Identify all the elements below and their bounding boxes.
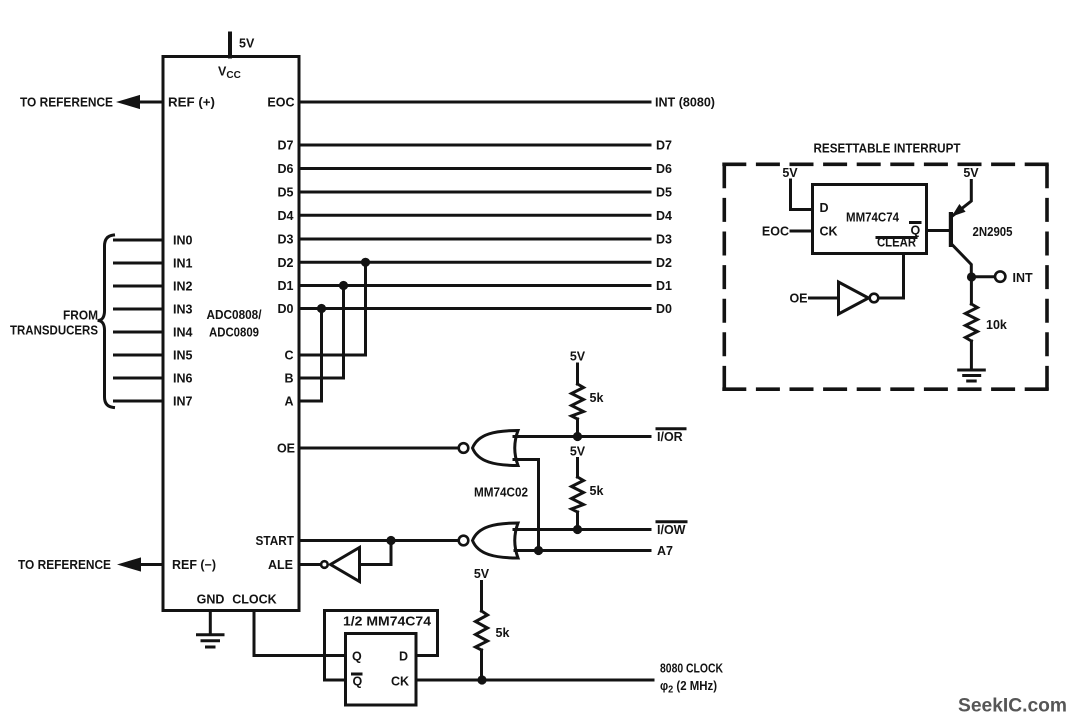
svg-text:IN1: IN1 — [173, 257, 193, 271]
label 8080 CLOCK phi2 — [660, 662, 723, 696]
svg-text:REF (−): REF (−) — [172, 558, 216, 572]
5V supply stub VCC — [230, 34, 255, 57]
svg-text:D0: D0 — [278, 302, 294, 316]
svg-text:D1: D1 — [656, 279, 672, 293]
wire FF2 Qbar to Q1 base — [927, 229, 950, 232]
INT terminal circle — [995, 271, 1005, 281]
5V stub to FF2 D — [782, 166, 812, 210]
wire D7 — [299, 144, 650, 147]
svg-text:D4: D4 — [278, 209, 294, 223]
junction dot A7 — [534, 546, 543, 555]
svg-text:D4: D4 — [656, 209, 672, 223]
junction dot on D0 — [317, 304, 326, 313]
svg-text:2N2905: 2N2905 — [973, 225, 1013, 239]
svg-text:B: B — [284, 372, 293, 386]
wire R4 to ground — [970, 341, 973, 369]
inverter A2 output bubble — [870, 294, 879, 303]
svg-text:Q: Q — [352, 650, 362, 664]
wire D1 — [299, 284, 650, 287]
svg-text:START: START — [256, 534, 295, 548]
wire CLOCK to flip-flop FF1 — [254, 611, 346, 656]
svg-text:5V: 5V — [570, 445, 586, 459]
NOR gate G2 body — [473, 523, 519, 558]
pin label Qbar (FF2) — [911, 223, 921, 238]
transistor Q1 emitter with 5V stub — [951, 166, 979, 217]
svg-text:MM74C74: MM74C74 — [846, 211, 899, 225]
resistor R2 5k zigzag — [572, 477, 584, 512]
wire IN5 — [115, 354, 164, 357]
wire EOC to FF2 CK — [791, 230, 813, 233]
wire G2 lower input / A7 line — [515, 549, 650, 552]
label FROM TRANSDUCERS — [10, 309, 98, 338]
svg-text:ALE: ALE — [268, 558, 293, 572]
wire D5 — [299, 191, 650, 194]
wire IN2 — [115, 285, 164, 288]
svg-text:RESETTABLE INTERRUPT: RESETTABLE INTERRUPT — [814, 142, 961, 156]
wire C to D2 column — [299, 262, 366, 355]
svg-text:5V: 5V — [239, 37, 255, 51]
junction dot START — [386, 536, 395, 545]
svg-text:1/2 MM74C74: 1/2 MM74C74 — [343, 615, 431, 629]
wire EOC to INT (8080) — [299, 101, 650, 104]
svg-text:8080 CLOCK: 8080 CLOCK — [660, 662, 723, 676]
wire G1 lower input to A7 node — [514, 460, 539, 551]
inverter A1 output bubble — [321, 561, 328, 568]
pin label Qbar (FF1) — [353, 674, 363, 689]
wire inverter input from START node — [361, 541, 392, 565]
resistor R2 5k pull-up stub — [576, 459, 579, 478]
wire D4 — [299, 214, 650, 217]
svg-text:ADC0809: ADC0809 — [209, 326, 259, 340]
svg-text:MM74C02: MM74C02 — [474, 486, 528, 500]
svg-text:10k: 10k — [986, 318, 1007, 332]
svg-text:OE: OE — [789, 292, 807, 306]
svg-text:FROM: FROM — [63, 309, 98, 323]
NOR gate G1 body — [473, 431, 519, 466]
wire START to NOR gate G2 — [299, 539, 457, 542]
wire REF (-) to reference — [137, 563, 163, 566]
flip-flop FF2 MM74C74 box — [813, 185, 927, 254]
label I/OR — [657, 429, 685, 444]
svg-text:REF (+): REF (+) — [168, 96, 215, 110]
ground symbol (interrupt box) — [959, 370, 985, 381]
svg-text:D3: D3 — [656, 233, 672, 247]
svg-text:IN2: IN2 — [173, 280, 193, 294]
wire R1 to I/OR rail — [576, 419, 579, 437]
wire OE to inverter A2 — [810, 297, 839, 300]
brace for transducer inputs — [98, 235, 114, 408]
svg-text:SeekIC.com: SeekIC.com — [958, 695, 1067, 717]
svg-text:φ2 (2 MHz): φ2 (2 MHz) — [660, 679, 717, 696]
svg-text:CLOCK: CLOCK — [232, 593, 276, 607]
svg-text:GND: GND — [197, 593, 225, 607]
flip-flop FF1 feedback loop Qbar to D — [325, 611, 438, 681]
svg-text:OE: OE — [277, 442, 295, 456]
svg-text:D1: D1 — [278, 279, 294, 293]
svg-text:I/OR: I/OR — [657, 430, 683, 444]
wire A to D0 column — [299, 309, 322, 402]
NOR gate G2 (MM74C02) output bubble — [459, 536, 469, 546]
wire ALE pin to inverter bubble — [299, 563, 320, 566]
dashed box RESETTABLE INTERRUPT — [722, 164, 1049, 391]
svg-text:CK: CK — [391, 675, 409, 689]
inverter A1 triangle — [331, 548, 360, 582]
svg-text:5k: 5k — [496, 626, 510, 640]
svg-text:D5: D5 — [278, 186, 294, 200]
svg-text:A7: A7 — [657, 544, 673, 558]
wire IN4 — [115, 331, 164, 334]
ground symbol GND — [198, 635, 224, 647]
svg-text:C: C — [284, 349, 293, 363]
wire IN7 — [115, 400, 164, 403]
svg-text:5V: 5V — [963, 166, 979, 180]
svg-text:EOC: EOC — [762, 225, 789, 239]
wire G2 upper input rail to I/OW — [514, 528, 650, 531]
wire OE to NOR gate G1 — [299, 447, 457, 450]
svg-text:IN6: IN6 — [173, 372, 193, 386]
svg-text:D7: D7 — [656, 139, 672, 153]
wire D0 — [299, 307, 650, 310]
wire D2 — [299, 261, 650, 264]
svg-text:TO REFERENCE: TO REFERENCE — [18, 558, 111, 572]
NOR gate G1 (MM74C02) output bubble — [459, 443, 469, 453]
wire D6 — [299, 167, 650, 170]
junction dot I/OR — [573, 432, 582, 441]
wire inverter A2 to CLEAR — [880, 254, 904, 299]
part label ADC0808/ADC0809 — [207, 308, 262, 340]
svg-text:IN3: IN3 — [173, 303, 193, 317]
svg-text:D6: D6 — [656, 162, 672, 176]
wire IN3 — [115, 308, 164, 311]
wire B to D1 column — [299, 286, 344, 379]
transistor Q1 2N2905 base bar — [949, 212, 953, 247]
transistor Q1 collector — [953, 245, 972, 277]
svg-text:D2: D2 — [656, 256, 672, 270]
svg-text:D3: D3 — [278, 233, 294, 247]
wire to INT terminal — [972, 275, 996, 278]
svg-text:D6: D6 — [278, 162, 294, 176]
svg-text:A: A — [284, 395, 293, 409]
flip-flop FF1 1/2 MM74C74 box — [346, 634, 417, 706]
svg-text:IN5: IN5 — [173, 349, 193, 363]
resistor R4 10k zigzag — [965, 304, 977, 341]
svg-text:5k: 5k — [590, 391, 604, 405]
svg-text:5V: 5V — [782, 166, 798, 180]
resistor R4 10k stub — [970, 277, 973, 304]
svg-text:EOC: EOC — [267, 96, 294, 110]
junction dot clock — [477, 675, 486, 684]
wire R2 to I/OW rail — [576, 512, 579, 530]
wire CK to 8080 clock — [416, 679, 653, 682]
resistor R1 5k pull-up stub — [576, 364, 579, 384]
junction dot on D1 — [339, 281, 348, 290]
svg-text:5V: 5V — [570, 350, 586, 364]
svg-text:D5: D5 — [656, 186, 672, 200]
svg-text:CK: CK — [820, 225, 838, 239]
label I/OW — [657, 522, 686, 537]
svg-text:5V: 5V — [474, 567, 490, 581]
ground stub under GND — [209, 611, 212, 634]
svg-text:TO REFERENCE: TO REFERENCE — [20, 96, 113, 110]
svg-text:D0: D0 — [656, 302, 672, 316]
resistor R3 5k clock pull-up stub — [480, 582, 483, 612]
wire IN0 — [115, 239, 164, 242]
wire IN6 — [115, 377, 164, 380]
svg-text:INT (8080): INT (8080) — [655, 96, 715, 110]
resistor R1 5k zigzag — [572, 384, 584, 419]
wire IN1 — [115, 262, 164, 265]
svg-text:I/OW: I/OW — [657, 523, 686, 537]
svg-text:5k: 5k — [590, 484, 604, 498]
svg-text:Q: Q — [353, 675, 363, 689]
svg-text:D: D — [399, 650, 408, 664]
wire REF (+) to reference — [136, 101, 163, 104]
svg-text:TRANSDUCERS: TRANSDUCERS — [10, 324, 98, 338]
pin label CLEAR (FF2) — [877, 236, 916, 250]
wire R3 to clock rail — [480, 650, 483, 680]
junction dot INT — [967, 272, 976, 281]
junction dot I/OW — [573, 525, 582, 534]
inverter A2 triangle — [839, 282, 869, 314]
wire D3 — [299, 238, 650, 241]
svg-text:IN7: IN7 — [173, 395, 193, 409]
arrow to reference (bottom) — [117, 557, 141, 571]
resistor R3 5k zigzag — [476, 611, 488, 650]
svg-text:INT: INT — [1013, 271, 1034, 285]
svg-text:IN4: IN4 — [173, 326, 193, 340]
wire G1 output rail to I/OR — [514, 435, 650, 438]
svg-text:D2: D2 — [278, 256, 294, 270]
IC U1 ADC0808/ADC0809 body — [163, 57, 299, 611]
arrow to reference (top) — [116, 95, 140, 109]
svg-text:IN0: IN0 — [173, 234, 193, 248]
junction dot on D2 — [361, 258, 370, 267]
svg-text:D: D — [820, 201, 829, 215]
svg-text:D7: D7 — [278, 139, 294, 153]
svg-text:ADC0808/: ADC0808/ — [207, 308, 262, 322]
